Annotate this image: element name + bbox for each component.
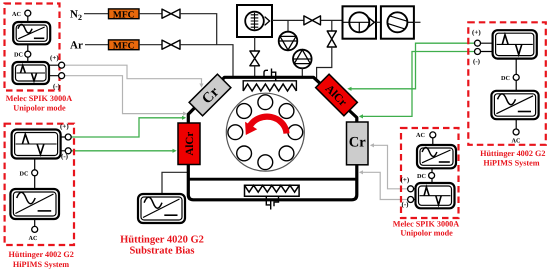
target AlCr (top-right) (316, 74, 358, 116)
pulse unit U3 (12, 130, 61, 159)
wire roots to rotary pump (376, 21, 381, 23)
substrate carousel (226, 93, 304, 171)
rotary vane pump P3 (381, 6, 414, 38)
wire turbo pump to chamber (stub) (254, 37, 256, 51)
substrate holder 7 (228, 125, 243, 140)
wire Ar to MFC (85, 44, 109, 46)
svg-text:Substrate Bias: Substrate Bias (129, 245, 194, 256)
AC/DC converter U4 (10, 189, 59, 219)
wire Huttinger BL (+) to chamber corner (71, 118, 182, 137)
wire exhaust (414, 21, 421, 23)
gauge G2 (293, 50, 312, 69)
wire MFC to valve (139, 44, 162, 46)
feedthrough (bottom) (266, 196, 278, 209)
valve gate (turbo) (250, 51, 260, 66)
wire N2 to MFC (84, 13, 109, 15)
svg-text:HiPIMS System: HiPIMS System (13, 260, 69, 269)
substrate holder 8 (237, 104, 252, 119)
AC/DC converter U7 (417, 145, 456, 168)
PSU Melec SPIK 3000A (top-left) dashed enclosure (5, 4, 60, 91)
wire Melec BR (+) to Cr target (374, 145, 408, 189)
MFC Ar mass flow controller (109, 40, 140, 51)
substrate holder 6 (237, 146, 252, 161)
DC node (431, 168, 433, 183)
gauge G2 stem (301, 68, 303, 77)
roots pump P2 (343, 6, 377, 38)
gauge G1 stem (287, 20, 289, 31)
svg-text:(-): (-) (402, 201, 410, 209)
PSU Melec SPIK 3000A (bottom-right) dashed enclosure (401, 128, 459, 218)
svg-text:AlCr: AlCr (184, 132, 196, 156)
PSU Huttinger 4002 (bottom-left) dashed enclosure (5, 124, 74, 245)
substrate holder 1 (258, 95, 273, 110)
valve N2 (162, 9, 180, 18)
svg-text:(+): (+) (50, 54, 59, 62)
substrate holder 3 (288, 125, 303, 140)
AC/DC converter U6 (491, 91, 538, 119)
svg-text:DC: DC (501, 75, 510, 82)
svg-text:(-): (-) (61, 153, 69, 161)
target Cr (right) (347, 122, 369, 165)
wire Huttinger TR (-) to chamber corner (363, 52, 475, 117)
PSU Huttinger 4002 (top-right) dashed enclosure (468, 22, 546, 145)
pulse unit U5 (493, 30, 537, 58)
svg-text:DC: DC (20, 170, 29, 177)
wire vent branch (331, 20, 333, 31)
wire valve to roots pump (321, 19, 343, 21)
valve backing (304, 16, 321, 25)
wire vent valve to chamber (317, 47, 332, 80)
substrate holder 2 (279, 104, 294, 119)
svg-text:(+): (+) (401, 176, 410, 184)
svg-text:Melec SPIK 3000A: Melec SPIK 3000A (6, 94, 72, 103)
feedthrough (top) (264, 69, 276, 81)
DC node (34, 159, 36, 190)
MFC N2 mass flow controller (109, 9, 140, 20)
AC terminal (34, 219, 36, 227)
wire Huttinger TR (+) to AlCr target (352, 43, 475, 89)
chamber shelf (188, 178, 356, 181)
svg-text:(+): (+) (472, 29, 481, 37)
AC/DC converter U1 (13, 22, 50, 44)
AC terminal (515, 119, 517, 129)
pulse unit U2 (13, 62, 50, 84)
wire substrate bias to chamber (162, 172, 188, 194)
pulse unit U8 (416, 183, 455, 208)
vacuum chamber (188, 77, 356, 200)
svg-text:Melec SPIK 3000A: Melec SPIK 3000A (393, 220, 459, 229)
DC node (515, 59, 517, 91)
target AlCr (left) (178, 123, 200, 165)
svg-text:MFC: MFC (113, 10, 135, 20)
svg-text:Hüttinger 4020 G2: Hüttinger 4020 G2 (120, 234, 204, 245)
svg-text:Unipolor mode: Unipolor mode (400, 229, 453, 238)
substrate bias supply U9 (138, 194, 185, 223)
svg-text:DC: DC (417, 173, 426, 180)
wire N2 valve to Ar line junction (180, 14, 217, 45)
gauge G1 (279, 32, 298, 51)
heater (bottom, substrate bias) (245, 185, 300, 196)
turbo pump P1 (237, 5, 272, 37)
substrate holder 5 (258, 155, 273, 170)
svg-text:(-): (-) (53, 82, 61, 90)
wire Huttinger BL (-) to AlCr target (71, 150, 173, 152)
svg-text:(+): (+) (60, 123, 69, 131)
DC node (27, 44, 29, 62)
valve Ar (162, 40, 180, 49)
svg-text:AC: AC (29, 235, 38, 242)
rotation arrow (250, 117, 287, 134)
heater (top) (243, 81, 296, 91)
wire gas inlet to chamber (180, 45, 233, 78)
svg-text:AC: AC (512, 138, 521, 145)
svg-text:MFC: MFC (113, 41, 135, 51)
terminals (+)/(-) (413, 189, 415, 200)
wire valve to chamber top (254, 66, 256, 78)
wire Melec TL (+) to Cr target (64, 65, 201, 83)
substrate holder 4 (279, 146, 294, 161)
target Cr (top-left) (189, 74, 231, 116)
svg-text:HiPIMS System: HiPIMS System (483, 159, 539, 168)
svg-text:Ar: Ar (70, 40, 83, 52)
svg-text:Hüttinger 4002 G2: Hüttinger 4002 G2 (480, 149, 545, 158)
svg-text:Hüttinger 4002 G2: Hüttinger 4002 G2 (9, 250, 74, 259)
svg-text:AC: AC (416, 132, 425, 139)
svg-text:Unipolor mode: Unipolor mode (13, 103, 66, 112)
svg-text:(-): (-) (473, 57, 481, 65)
valve vent (327, 31, 336, 47)
svg-text:Cr: Cr (349, 135, 366, 151)
wire Melec BR (-) to chamber wall (363, 172, 408, 199)
terminals (+)/(-) (49, 65, 59, 76)
wire Melec TL (-) to chamber wall (64, 76, 183, 114)
wire turbo to roughing valve (272, 19, 304, 21)
terminals (+)/(-) (61, 137, 66, 151)
svg-text:AC: AC (12, 11, 21, 18)
svg-text:DC: DC (14, 52, 23, 59)
wire MFC to valve (139, 13, 162, 15)
